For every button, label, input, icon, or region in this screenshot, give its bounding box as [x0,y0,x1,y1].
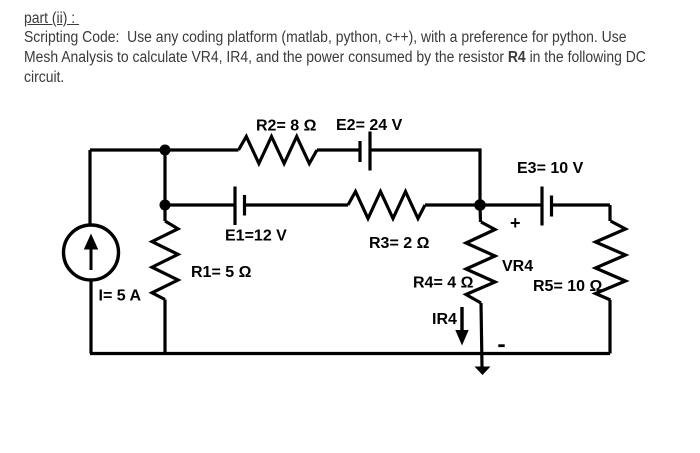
svg-text:R4= 4 Ω: R4= 4 Ω [413,275,474,292]
svg-text:IR4: IR4 [432,311,457,328]
svg-text:E3= 10 V: E3= 10 V [517,160,584,177]
svg-text:R2= 8 Ω: R2= 8 Ω [256,118,317,135]
svg-text:+: + [510,213,521,233]
svg-text:R5= 10 Ω: R5= 10 Ω [533,278,602,295]
svg-text:I= 5 A: I= 5 A [99,288,142,305]
svg-text:E1=12 V: E1=12 V [225,228,287,245]
svg-text:E2= 24 V: E2= 24 V [336,117,403,134]
svg-text:R3= 2 Ω: R3= 2 Ω [369,235,430,252]
svg-text:VR4: VR4 [502,258,533,275]
svg-text:R1= 5 Ω: R1= 5 Ω [191,264,252,281]
